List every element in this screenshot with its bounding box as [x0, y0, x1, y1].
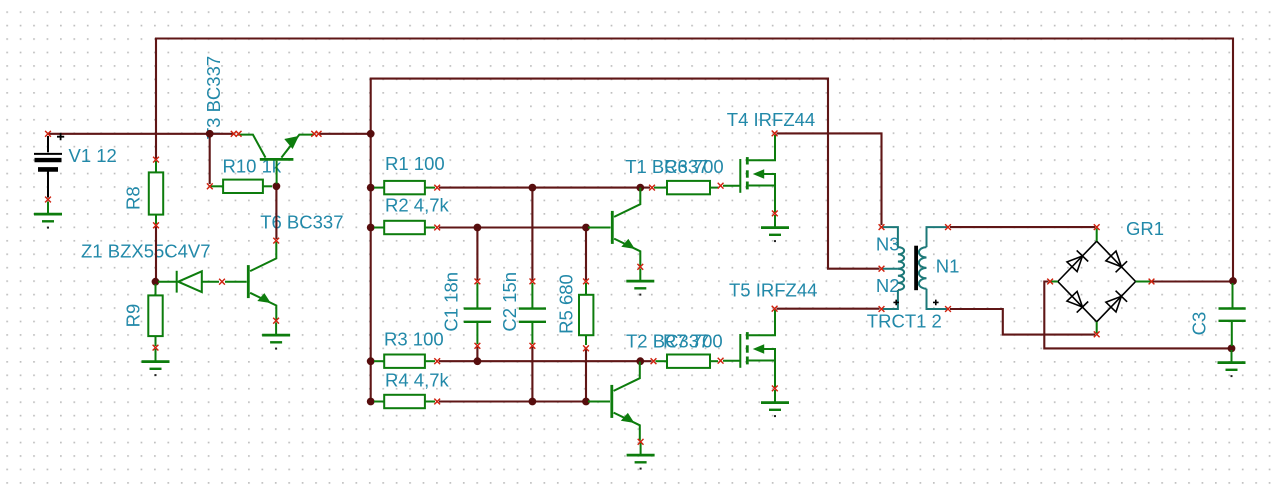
svg-text:N1: N1 [936, 255, 960, 276]
pin T6 emitter [273, 318, 279, 324]
node R3 left [367, 357, 375, 365]
pin R10 left [207, 183, 213, 189]
node R10 right / T3 base / T6 collector [273, 182, 281, 190]
node C1 bottom on R3 row [474, 357, 482, 365]
pin R8 top [153, 157, 159, 163]
label R10 1k [223, 155, 282, 176]
svg-text:C2 15n: C2 15n [499, 272, 520, 332]
resistor R1 [374, 181, 435, 194]
label R4 4,7k [385, 369, 450, 390]
pin TRCT1 center tap [879, 266, 885, 272]
svg-text:T4 IRFZ44: T4 IRFZ44 [727, 109, 815, 130]
pin T1 collector [649, 185, 655, 191]
capacitor C2 [519, 283, 546, 344]
svg-text:R3 100: R3 100 [384, 328, 444, 349]
pin T3 emitter [311, 131, 317, 137]
node R1 left [367, 184, 375, 192]
label T3 BC337 [203, 56, 224, 139]
wire R1 output row [439, 187, 650, 189]
node left rail top [367, 130, 375, 138]
wire R8 bottom to Z1 junction [155, 227, 157, 282]
wire T2 base lead [588, 401, 610, 403]
label R5 680 [555, 274, 576, 334]
wire T4 drain to transformer N3 top [777, 133, 882, 225]
pin R4 right [434, 399, 440, 405]
pin GR1 right [1149, 279, 1155, 285]
label T2 BC337 [626, 330, 709, 351]
svg-text:T3 BC337: T3 BC337 [203, 56, 224, 139]
wire C1 bottom drop [476, 347, 478, 361]
pin TRCT1 N2 bottom [879, 306, 885, 312]
pin R1 right [434, 185, 440, 191]
wire T5 drain to transformer N2 bottom [777, 308, 880, 310]
ground T5 [761, 390, 789, 417]
resistor R3 [374, 355, 435, 368]
wire top rail from R8 top to C3 top [156, 39, 1233, 282]
label T4 IRFZ44 [727, 109, 815, 130]
wire R5 bottom drop [585, 350, 587, 402]
battery V1 [34, 133, 64, 202]
mosfet T4 [723, 135, 775, 213]
pin R3 right [434, 358, 440, 364]
pin T1 emitter [637, 264, 643, 270]
pin T4 drain [772, 131, 778, 137]
pin GR1 top [1094, 224, 1100, 230]
pin T2 collector [651, 358, 657, 364]
resistor R9 [148, 284, 162, 346]
svg-text:N2: N2 [876, 275, 900, 296]
wire R4 output row [439, 400, 586, 402]
svg-text:R2 4,7k: R2 4,7k [385, 195, 450, 216]
ground battery [34, 202, 62, 229]
label C2 15n [499, 272, 520, 332]
label N3 [876, 233, 900, 254]
node T1 collector on R1 row [636, 184, 644, 192]
bridge rectifier GR1 [1050, 229, 1151, 334]
label R9 [122, 304, 143, 328]
mosfet T5 [723, 310, 775, 388]
pin C2 top [530, 279, 536, 285]
label TRCT1 2 [867, 310, 942, 331]
ground T2 [627, 443, 655, 470]
pin battery plus [45, 131, 51, 137]
label R6 700 [664, 156, 724, 177]
node R4 left [367, 398, 375, 406]
label C1 18n [440, 272, 461, 332]
node C3 bottom [1228, 345, 1236, 353]
pin T3 collector [231, 131, 237, 137]
transformer TRCT1 [882, 227, 949, 309]
pin TRCT1 N1 bottom [945, 306, 951, 312]
svg-text:T6 BC337: T6 BC337 [260, 211, 343, 232]
node R5 top / T1 base [582, 224, 590, 232]
pin C1 top [475, 279, 481, 285]
svg-text:R7 700: R7 700 [663, 330, 723, 351]
label R2 4,7k [385, 195, 450, 216]
wire C2 top drop [531, 188, 533, 280]
resistor R5 [579, 283, 593, 345]
pin R2 right [434, 225, 440, 231]
node C3 top [1229, 277, 1237, 285]
pin T6 collector [273, 238, 279, 244]
transistor T1 [612, 188, 640, 267]
resistor R7 [656, 355, 719, 368]
pin T4 source [772, 211, 778, 217]
wire bridge left vertex to C3 bottom [1044, 282, 1231, 349]
svg-text:C1 18n: C1 18n [440, 272, 461, 332]
wire Z1 anode to T6 base [225, 281, 247, 283]
svg-text:V1 12: V1 12 [69, 145, 117, 166]
label Z1 BZX55C4V7 [81, 241, 211, 262]
svg-text:R5 680: R5 680 [555, 274, 576, 334]
label V1 12 [69, 145, 117, 166]
wire T3 emitter to left rail junction [318, 133, 372, 135]
svg-text:Z1 BZX55C4V7: Z1 BZX55C4V7 [81, 241, 211, 262]
node C2 top on R1 row [529, 184, 537, 192]
pin R9 bottom [153, 345, 159, 351]
zener diode Z1 [158, 271, 219, 293]
wire T6 collector drop from R10 junction [275, 186, 277, 239]
wire R5 top drop [585, 228, 587, 281]
transistor T6 [248, 242, 276, 321]
label R3 100 [384, 328, 444, 349]
wire battery positive row [48, 133, 234, 135]
pin T3 collector 2 [236, 131, 242, 137]
wire bridge right vertex to C3 top [1153, 280, 1234, 282]
ground T4 [761, 215, 789, 242]
svg-text:N3: N3 [876, 233, 900, 254]
svg-text:GR1: GR1 [1126, 218, 1164, 239]
label R1 100 [385, 153, 445, 174]
label GR1 [1126, 218, 1164, 239]
label R7 700 [663, 330, 723, 351]
label C3 [1188, 312, 1209, 336]
pin GR1 bottom [1094, 331, 1100, 337]
node R2 left [367, 224, 375, 232]
wire R3 output row [439, 360, 652, 362]
label N2 [876, 275, 900, 296]
pin T2 emitter [638, 439, 644, 445]
svg-text:R4 4,7k: R4 4,7k [385, 369, 450, 390]
node C2 bottom on R4 row [529, 398, 537, 406]
resistor R8 [149, 161, 163, 224]
wire N1 top to bridge top [950, 226, 1095, 228]
node battery rail / R10 [206, 130, 214, 138]
pin R5 bottom [583, 345, 589, 351]
svg-text:R8: R8 [122, 186, 143, 210]
pin T5 drain [772, 306, 778, 312]
capacitor C1 [464, 283, 491, 344]
wire T1 base lead [588, 227, 611, 229]
label N1 [936, 255, 960, 276]
resistor R2 [374, 221, 435, 234]
transistor T2 [612, 362, 640, 441]
node C1 top on R2 row [474, 224, 482, 232]
transistor T3 [238, 135, 315, 184]
svg-text:T5 IRFZ44: T5 IRFZ44 [729, 279, 817, 300]
wire C2 bottom drop [531, 347, 533, 402]
pin TRCT1 N1 top [945, 224, 951, 230]
pin C1 bottom [475, 343, 481, 349]
svg-text:R6 700: R6 700 [664, 156, 724, 177]
label T5 IRFZ44 [729, 279, 817, 300]
resistor R6 [654, 181, 718, 194]
pin TRCT1 N3 top [879, 224, 885, 230]
label T1 BC337 [625, 156, 708, 177]
wire C1 top drop [476, 228, 478, 281]
pin T3 emitter 2 [316, 131, 322, 137]
wire R10 left drop [209, 134, 211, 184]
wire second rail / left resistor rail to transformer center tap [371, 79, 880, 402]
resistor R10 [211, 180, 272, 193]
ground T6 [262, 323, 290, 350]
pin T4 gate [718, 183, 724, 189]
ground R9 [142, 349, 170, 376]
pin C2 bottom [530, 343, 536, 349]
node R5 bottom / T2 base [582, 398, 590, 406]
pin T5 source [772, 386, 778, 392]
label T6 BC337 [260, 211, 343, 232]
svg-text:TRCT1 2: TRCT1 2 [867, 310, 942, 331]
resistor R4 [374, 395, 435, 408]
ground C3 [1218, 350, 1246, 377]
svg-text:R1 100: R1 100 [385, 153, 445, 174]
svg-text:C3: C3 [1188, 312, 1209, 336]
pin R5 top [583, 279, 589, 285]
svg-text:R9: R9 [122, 304, 143, 328]
node T2 collector on R3 row [636, 357, 644, 365]
pin R8 bottom [153, 222, 159, 228]
label R8 [122, 186, 143, 210]
pin Z1 anode [219, 279, 225, 285]
node Z1 cathode / R8 / R9 [152, 278, 160, 286]
wire R2 output row [439, 226, 586, 228]
pin battery minus [45, 197, 51, 203]
capacitor C3 [1219, 283, 1246, 346]
pin GR1 left [1047, 279, 1053, 285]
ground T1 [626, 269, 654, 296]
wire N1 bottom to bridge bottom [950, 309, 1095, 335]
pin T5 gate [718, 358, 724, 364]
